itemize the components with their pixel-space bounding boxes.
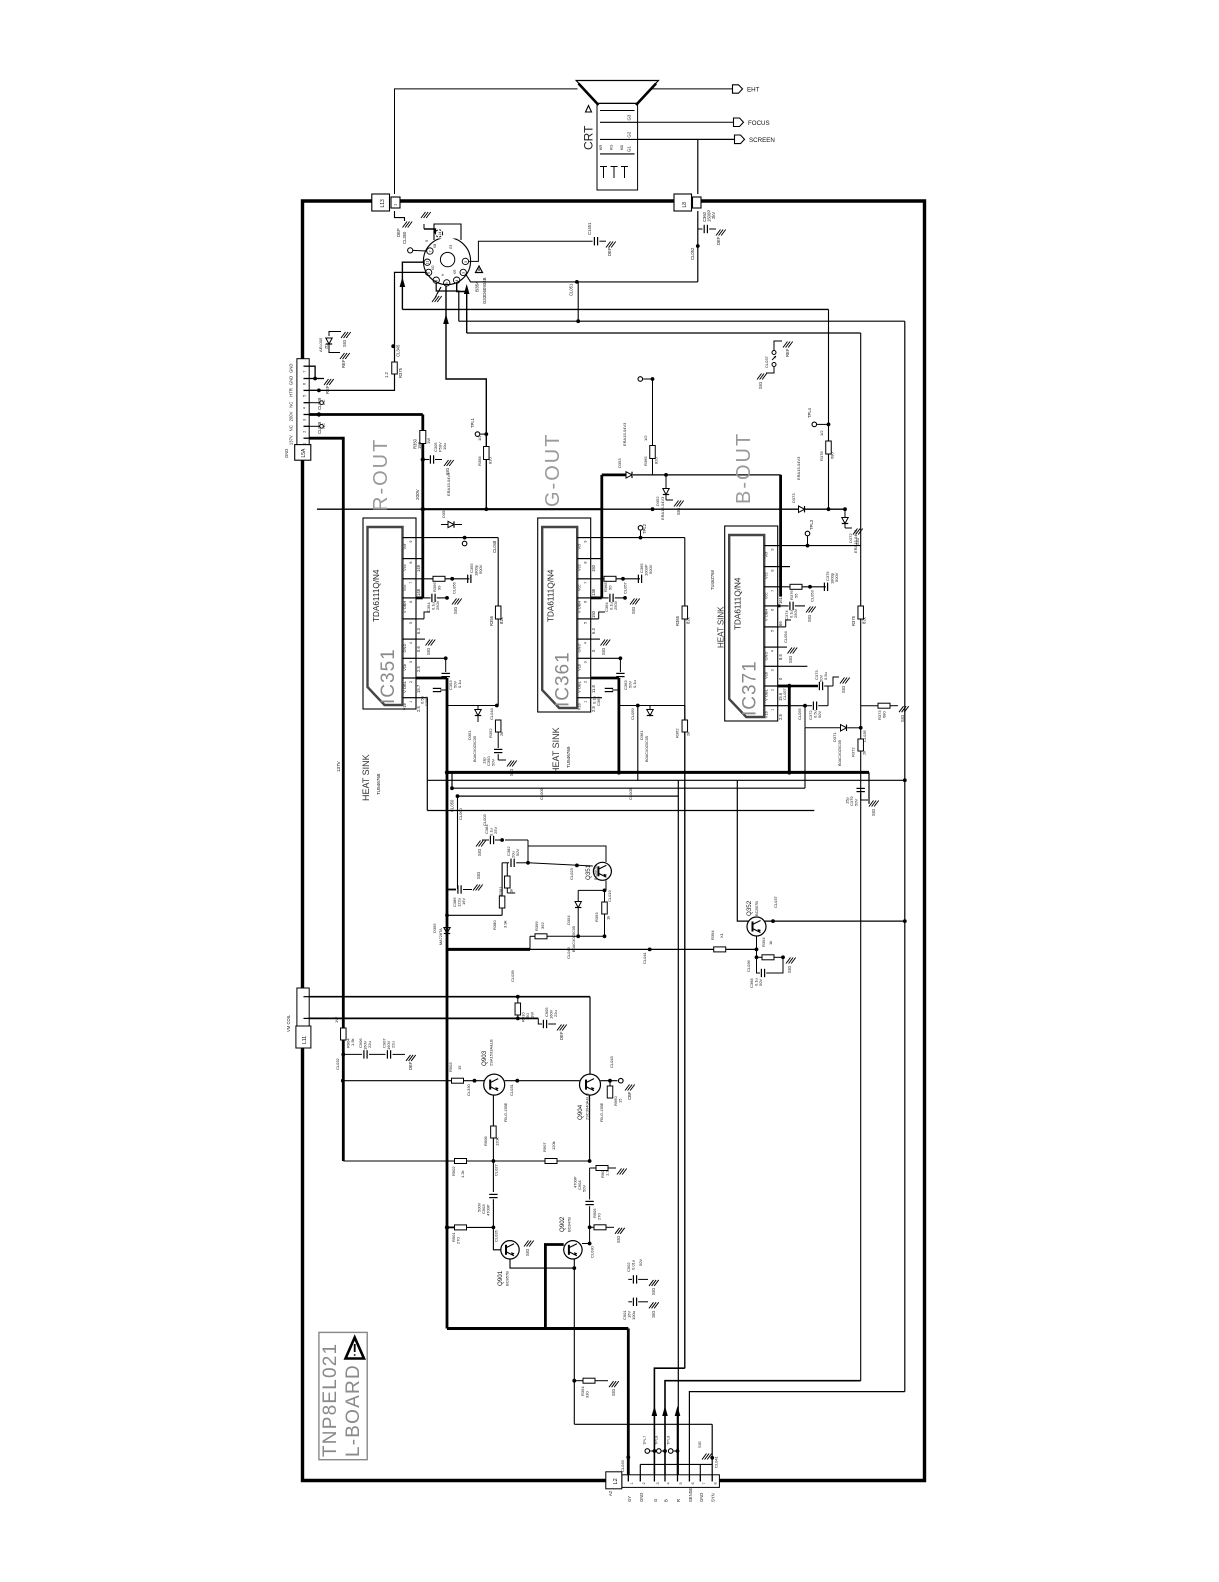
resistor R355 82k <box>495 606 501 619</box>
wire TPL9 riser lower <box>677 1412 679 1475</box>
resistor R902 1.2k <box>455 1159 467 1164</box>
capacitor C305 10u 50V <box>423 459 430 461</box>
test point G column circle <box>638 377 643 382</box>
wire SCREEN <box>638 138 735 140</box>
IC351 pin 3 V1b <box>403 657 417 659</box>
junction TPL3 <box>806 544 810 548</box>
svg-text:22u: 22u <box>367 1041 372 1048</box>
svg-text:R375: R375 <box>398 367 403 378</box>
resistor R905 270 <box>590 1226 594 1228</box>
wire R380 row <box>447 914 502 916</box>
svg-text:NC: NC <box>289 425 294 431</box>
junction B rail at bus <box>787 770 791 774</box>
svg-text:8.5: 8.5 <box>778 654 783 660</box>
svg-text:B0ACX0Z0C05: B0ACX0Z0C05 <box>572 926 576 952</box>
wire C382-C384 vertical <box>527 840 529 863</box>
no-connect pin 2 <box>309 425 319 427</box>
capacitor C379 plates <box>857 787 865 789</box>
svg-text:2kV: 2kV <box>711 212 716 219</box>
svg-text:R: R <box>676 1499 681 1502</box>
wire socket pin5 to C1451 <box>469 241 593 261</box>
wire R output rail down <box>446 678 449 772</box>
wire node row B to right column <box>402 308 828 310</box>
capacitor C354 0.1u 250V <box>423 597 431 599</box>
wire mesh row 2 <box>427 779 905 781</box>
svg-text:SIG: SIG <box>453 607 458 614</box>
resistor R380 3.9k <box>501 908 503 915</box>
junction right column Q352 <box>903 919 907 923</box>
capacitor C906 plates <box>363 1050 365 1058</box>
capacitor C373 plates <box>818 682 820 690</box>
svg-text:2k: 2k <box>499 732 504 736</box>
svg-text:V1b: V1b <box>764 710 769 718</box>
op-amp IC361 outer box <box>538 518 591 712</box>
svg-text:GND: GND <box>289 376 294 385</box>
junction CL041 <box>648 948 652 952</box>
IC351 pin 8 Vcc <box>403 558 417 560</box>
svg-text:FOCUS: FOCUS <box>748 120 770 127</box>
arrow on pin11 wire <box>400 277 406 287</box>
svg-text:50V: 50V <box>758 979 763 986</box>
svg-text:3: 3 <box>409 661 413 663</box>
test point TPL9 <box>668 1449 673 1454</box>
CRT socket key circle <box>440 252 454 266</box>
svg-text:L2: L2 <box>613 1478 619 1484</box>
svg-text:6: 6 <box>303 383 307 385</box>
svg-text:250V: 250V <box>793 608 798 618</box>
junction 200V rail / bus 509 <box>421 507 425 511</box>
svg-text:B354: B354 <box>475 281 480 292</box>
wire IC351 pin3 row <box>416 657 446 659</box>
wire Q903 emitter down <box>492 1095 494 1126</box>
svg-text:5: 5 <box>464 261 468 263</box>
svg-text:8: 8 <box>584 561 588 563</box>
svg-text:REF: REF <box>325 385 330 394</box>
diode D361 body <box>647 710 653 716</box>
svg-text:NC: NC <box>289 402 294 408</box>
svg-text:D354: D354 <box>566 915 571 925</box>
junction CL036 q2 <box>755 955 759 959</box>
wire B column upper <box>828 309 830 441</box>
svg-text:4: 4 <box>409 642 413 644</box>
svg-text:C1451: C1451 <box>587 222 592 235</box>
svg-text:SIG: SIG <box>788 656 793 663</box>
svg-text:SIG: SIG <box>426 648 431 655</box>
resistor R393 1k body <box>602 902 608 914</box>
svg-text:HEAT SINK: HEAT SINK <box>361 754 371 801</box>
svg-text:GND: GND <box>699 1493 704 1502</box>
junction TPL9 <box>676 1449 680 1453</box>
svg-text:1k: 1k <box>768 941 773 945</box>
IC351 pin 2 V OBL <box>403 677 417 679</box>
ground DEF at C360 <box>716 230 721 236</box>
svg-text:FB-G-155E: FB-G-155E <box>504 1102 508 1122</box>
junction Q904 em row <box>588 1159 592 1163</box>
svg-text:R358: R358 <box>477 456 482 466</box>
svg-text:Q902: Q902 <box>559 1216 566 1232</box>
junction at C364 <box>623 596 627 600</box>
svg-text:SIG: SIG <box>651 1311 656 1318</box>
svg-text:TPL2: TPL2 <box>642 523 647 534</box>
wire R380 up <box>501 863 503 896</box>
svg-text:GND: GND <box>577 644 582 653</box>
svg-text:GND: GND <box>764 652 769 661</box>
ground SIG at R373 <box>899 706 904 712</box>
wire heater rail to R375 <box>394 346 396 362</box>
svg-text:11: 11 <box>426 261 430 265</box>
ground SIG at C373 <box>840 678 845 684</box>
ground SIG at connector GND <box>702 1454 707 1460</box>
zener diode D305 <box>329 332 341 337</box>
svg-text:GND: GND <box>289 364 294 373</box>
resistor R906 body <box>596 1166 608 1171</box>
wire mesh row 3 <box>452 787 805 789</box>
ground SIG at R905 <box>615 1228 620 1234</box>
wire IC361 pin8 stub <box>591 558 602 560</box>
connector L5A <box>295 445 311 461</box>
capacitor C352 0.1u 50V <box>440 689 447 691</box>
CRT socket pin 3 <box>460 269 466 275</box>
capacitor C355 1800p 500V <box>467 575 469 583</box>
IC371 pin 7 Vcc <box>764 586 778 588</box>
svg-text:250V: 250V <box>613 600 618 610</box>
connector L2 label box <box>606 1472 622 1489</box>
ground DEF at C905 <box>557 1025 562 1031</box>
svg-text:CBF: CBF <box>627 1091 632 1100</box>
svg-text:3: 3 <box>771 669 775 671</box>
connector TU pin 1 137V <box>304 437 310 439</box>
wire thick video bus <box>447 771 869 774</box>
IC371 pin 8 Vcc <box>764 566 778 568</box>
svg-text:CL044: CL044 <box>489 707 494 720</box>
IC371 pin 6 V OBH <box>764 605 778 607</box>
junction R rail at bus <box>445 770 449 774</box>
svg-text:2.5: 2.5 <box>778 714 783 720</box>
wire Q901 emitter join <box>510 1259 574 1268</box>
connector L11 <box>297 988 309 1026</box>
wire socket pin4 down to R row <box>457 283 467 333</box>
svg-text:100u: 100u <box>631 1311 636 1320</box>
resistor R356 99 <box>433 576 445 581</box>
svg-text:3.9k: 3.9k <box>503 920 508 928</box>
arrow on pin4 wire <box>464 284 470 294</box>
junction CL050 <box>456 794 460 798</box>
connector TU (left edge) <box>297 359 309 445</box>
svg-text:V1b: V1b <box>402 663 407 671</box>
diode D352 ERA15-04V3 <box>663 489 669 495</box>
svg-text:Q351: Q351 <box>585 864 592 880</box>
wire 200V rail down to IC351 <box>421 415 424 432</box>
wire IC371 pin2 output <box>778 685 790 688</box>
CRT cathode pin KG <box>613 167 615 179</box>
wire IC361 pin2 output <box>591 677 619 680</box>
op-amp IC351 body TDA6111Q <box>368 527 403 705</box>
IC361 pin 5 <box>577 618 591 620</box>
svg-text:270: 270 <box>456 1237 461 1244</box>
CRT grid G2 line <box>600 138 638 140</box>
svg-text:680: 680 <box>830 452 835 459</box>
capacitor C352 plates <box>433 687 441 689</box>
svg-text:TDA6111Q/N4: TDA6111Q/N4 <box>547 569 556 622</box>
wire R row to right column <box>467 332 861 334</box>
svg-text:R378: R378 <box>819 451 824 461</box>
ground SIG at Q901 <box>524 1241 529 1247</box>
wire SCREEN drop to connector L8 <box>697 139 699 194</box>
svg-text:L11: L11 <box>302 1036 308 1044</box>
capacitor C386 122u 16V <box>447 889 456 891</box>
svg-text:TU546768: TU546768 <box>376 773 381 795</box>
wire thick bottom row <box>447 1327 628 1330</box>
svg-text:22u: 22u <box>553 1010 558 1017</box>
svg-text:168: 168 <box>778 572 783 580</box>
wire G column lower <box>652 459 654 475</box>
svg-text:CL026: CL026 <box>494 1229 499 1242</box>
svg-text:CL053: CL053 <box>810 589 815 602</box>
wire IC361 pin1 <box>591 697 602 699</box>
wire IC371 pin1 <box>778 705 805 707</box>
IC361 pin 2 V OBL <box>577 677 591 679</box>
svg-text:NC: NC <box>322 399 326 405</box>
svg-text:CL031: CL031 <box>509 1083 514 1096</box>
junction TPL8 <box>663 1449 667 1453</box>
wire Q351 collector up <box>528 846 606 862</box>
wire Q352 emitter node <box>756 936 758 957</box>
wire R rail lower section <box>446 772 449 1328</box>
svg-text:TPL8: TPL8 <box>654 1436 659 1445</box>
svg-text:KB: KB <box>620 144 624 150</box>
svg-text:D351: D351 <box>467 730 472 740</box>
svg-text:IC371: IC371 <box>740 660 761 716</box>
svg-text:V OBH: V OBH <box>577 601 582 614</box>
capacitor C372 0.5u 50V <box>805 705 812 707</box>
svg-text:9: 9 <box>445 282 449 284</box>
svg-text:D373: D373 <box>791 493 796 503</box>
wire socket pin6 to heater rail <box>395 272 426 346</box>
svg-text:8: 8 <box>771 569 775 571</box>
svg-text:NC: NC <box>322 423 326 429</box>
wire socket pin3 to L8 net <box>466 275 698 282</box>
svg-text:3: 3 <box>462 272 466 274</box>
svg-text:7: 7 <box>702 1482 706 1484</box>
wire Q902 thick branch <box>545 1245 563 1329</box>
svg-text:DEF: DEF <box>559 1031 564 1040</box>
wire C904 column <box>589 1168 591 1200</box>
svg-text:0.1u: 0.1u <box>632 680 637 688</box>
resistor R905 body <box>594 1225 606 1230</box>
svg-text:GND: GND <box>402 644 407 653</box>
wire socket pin8 down to G row <box>436 283 459 321</box>
svg-text:Vcc: Vcc <box>764 572 769 579</box>
svg-text:A2: A2 <box>608 1490 613 1496</box>
svg-text:CL350: CL350 <box>402 231 407 244</box>
svg-text:CL043: CL043 <box>609 1055 614 1068</box>
title box TNP8EL021 L-BOARD <box>319 1332 367 1459</box>
connector TU pin 3 200V <box>304 414 310 416</box>
svg-text:SIG: SIG <box>616 1236 621 1243</box>
svg-text:HTR: HTR <box>289 388 294 397</box>
wire HTR pin <box>309 389 319 391</box>
svg-text:10u: 10u <box>442 443 447 450</box>
resistor R903 15 <box>452 1078 464 1083</box>
svg-text:500V: 500V <box>478 564 483 574</box>
wire 137V row to CL027 <box>343 1160 454 1162</box>
svg-text:TU46Z768: TU46Z768 <box>710 570 715 590</box>
capacitor C364 plates <box>609 594 611 602</box>
wire Q904 emitter right <box>601 1080 618 1082</box>
IC351 pin 9 Vcf <box>403 537 417 539</box>
wire Q351 emitter to D354 <box>578 889 604 891</box>
CRT cathode pin KR <box>603 167 605 179</box>
svg-text:CL037: CL037 <box>764 355 769 368</box>
junction CL041 syn <box>710 1456 714 1460</box>
ground DEF near L13 <box>403 222 408 228</box>
svg-text:270: 270 <box>597 1213 602 1220</box>
svg-text:Vcc: Vcc <box>402 564 407 571</box>
CRT socket heater pin H <box>435 230 442 237</box>
wire jog B <box>665 1381 861 1475</box>
ground SIG at D352 <box>674 501 679 507</box>
svg-text:250V: 250V <box>435 600 440 610</box>
svg-text:82k: 82k <box>862 616 867 624</box>
ground SIG at C354 <box>452 599 457 605</box>
svg-text:4: 4 <box>667 1482 671 1484</box>
ground SIG at IC361 GND <box>601 640 606 646</box>
ground SIG at IC371 GND <box>788 648 793 654</box>
capacitor C906 160V 22u <box>343 1053 362 1055</box>
svg-text:SIG: SIG <box>651 1288 656 1295</box>
resistor R910 body <box>515 1003 521 1015</box>
IC351 pin 1 V1b <box>403 697 417 699</box>
IC361 pin 1 V1b <box>577 697 591 699</box>
svg-text:200V: 200V <box>415 488 420 500</box>
svg-text:Q904: Q904 <box>577 1104 584 1120</box>
svg-text:1: 1 <box>584 701 588 703</box>
svg-text:CL057: CL057 <box>623 581 628 594</box>
resistor R358 820 half watt <box>484 447 490 460</box>
svg-text:2: 2 <box>303 431 307 433</box>
junction G column <box>651 377 655 381</box>
svg-text:6.3: 6.3 <box>416 628 421 634</box>
capacitor C360 plates <box>703 225 705 233</box>
svg-text:SIG: SIG <box>676 508 681 515</box>
svg-text:50V: 50V <box>582 1185 587 1192</box>
wire IC361 pin5 stub <box>591 618 599 620</box>
svg-text:1k: 1k <box>509 889 514 893</box>
wire 200V rail lower <box>421 444 424 598</box>
svg-text:CL041: CL041 <box>642 951 647 964</box>
junction D355 top <box>445 913 449 917</box>
connector TU pin 6 GND <box>304 378 310 380</box>
svg-text:D350: D350 <box>441 508 446 518</box>
no-connect pin 4 <box>309 402 319 404</box>
svg-text:6: 6 <box>584 601 588 603</box>
svg-text:CL036: CL036 <box>746 959 751 972</box>
svg-text:6: 6 <box>427 272 431 274</box>
wire R399 elbow down <box>529 936 531 949</box>
junction R rail at R901 <box>445 1225 449 1229</box>
wire CL005g drop to cap C363 <box>619 658 621 672</box>
svg-text:CL052: CL052 <box>690 247 695 260</box>
junction CL049 <box>317 389 321 393</box>
svg-text:TPL9: TPL9 <box>665 1436 670 1445</box>
svg-text:138: 138 <box>591 588 596 596</box>
wire R362 bottom <box>684 732 686 788</box>
svg-text:GY: GY <box>627 1496 632 1502</box>
resistor R365 82k <box>682 606 688 619</box>
diode D372 drop <box>844 509 846 517</box>
wire G long vertical 2 <box>684 788 686 1368</box>
diode D371 body <box>841 725 847 731</box>
wire 200V elbow G <box>602 473 626 476</box>
svg-text:SIG: SIG <box>476 872 481 879</box>
wire jog G2 <box>654 1368 684 1475</box>
resistor R376 56 <box>790 584 802 589</box>
ground SIG at IC351 GND <box>426 640 431 646</box>
svg-text:11.8: 11.8 <box>591 684 596 693</box>
svg-text:V OBL: V OBL <box>764 688 769 701</box>
svg-text:15.6: 15.6 <box>778 692 783 701</box>
wire base row to Q903 <box>343 1080 452 1082</box>
capacitor C382 plates <box>510 859 512 867</box>
wire 200V branch to IC361 <box>600 475 603 598</box>
capacitor C901 100u 16V <box>628 1301 632 1303</box>
IC371 pin 2 V OBL <box>764 685 778 687</box>
svg-text:G: G <box>653 1499 658 1502</box>
resistor R372 2k <box>858 739 864 751</box>
diode D350 ERA15-04V3 above IC351 <box>441 524 448 526</box>
svg-text:R381: R381 <box>498 886 503 896</box>
arrow on TPL9 riser <box>675 1406 681 1416</box>
wire IC361 pin3 row <box>591 657 621 659</box>
svg-text:ERA15-04V3: ERA15-04V3 <box>796 456 801 480</box>
junction R column at bus509 <box>484 507 488 511</box>
svg-text:EHT: EHT <box>747 87 760 94</box>
svg-text:TPL3: TPL3 <box>809 519 814 530</box>
CRT socket pin 6 <box>425 269 431 275</box>
connector L2 pin 2 <box>639 1475 641 1482</box>
capacitor C365 1003P 500V <box>637 575 639 583</box>
ground SIG at R906 <box>617 1169 622 1175</box>
wire R355 down <box>497 619 499 706</box>
wire 137V pin to rail <box>309 438 343 1161</box>
svg-text:GND: GND <box>284 449 289 458</box>
capacitor C384 plates <box>489 836 491 844</box>
svg-text:BC857B: BC857B <box>505 1271 510 1286</box>
test point TPL3 circle <box>805 531 810 536</box>
wire feedback B-column <box>860 333 862 606</box>
wire G test column <box>652 379 654 446</box>
diode D350 body <box>448 521 454 527</box>
junction mesh row3 left <box>450 786 454 790</box>
arrow on pin9 wire <box>443 314 449 324</box>
svg-text:KG: KG <box>610 144 614 150</box>
junction TPL1 <box>484 432 488 436</box>
svg-text:1.2k: 1.2k <box>460 1170 465 1178</box>
CRT socket pin 9 <box>444 280 450 286</box>
resistor R394 1k <box>714 947 726 952</box>
svg-text:137V: 137V <box>336 760 341 772</box>
svg-text:149: 149 <box>416 564 421 572</box>
svg-text:8: 8 <box>409 561 413 563</box>
CRT warning triangle <box>586 106 592 113</box>
capacitor C905 plates <box>542 1020 544 1028</box>
warning triangle B354 <box>476 266 483 273</box>
svg-text:7: 7 <box>303 371 307 373</box>
svg-text:4700P: 4700P <box>573 1176 578 1188</box>
connector TU pin 7 GND <box>304 365 310 367</box>
svg-text:SIG: SIG <box>855 538 860 545</box>
wire Q903 to Q904 <box>505 1080 580 1082</box>
